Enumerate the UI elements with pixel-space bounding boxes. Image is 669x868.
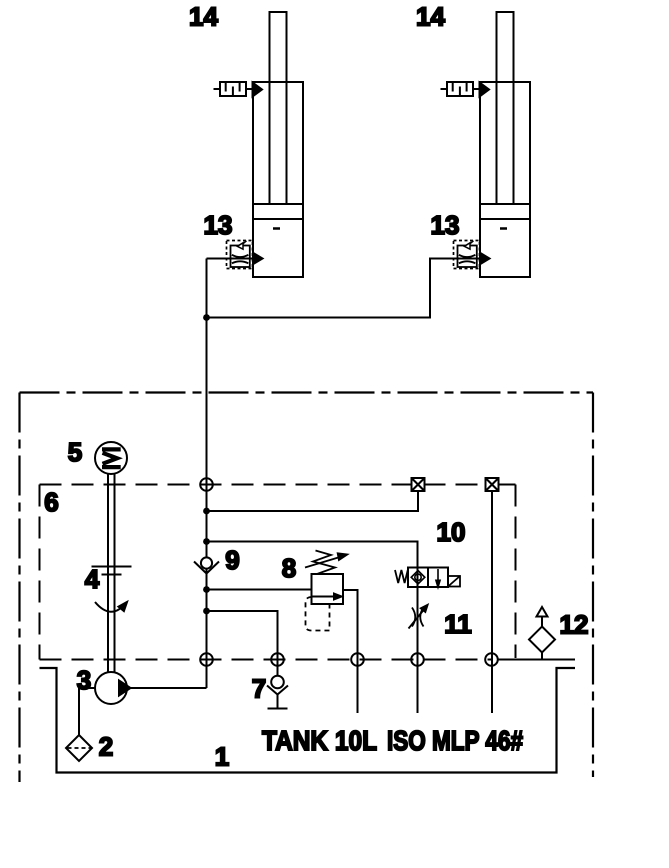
cylinder 14 right flange line: [480, 218, 530, 220]
cylinder 14 left rod: [270, 12, 287, 204]
throttle check valve 13 right: [454, 241, 490, 269]
svg-text:8: 8: [282, 553, 296, 583]
cylinder 14 left piston line: [253, 203, 303, 205]
breather on left cylinder: [214, 82, 263, 97]
pump pressure wire: [127, 687, 207, 689]
check valve 9: [194, 557, 219, 573]
junction node: [203, 608, 210, 615]
wire from left valve 13 to junction: [207, 258, 254, 260]
relief valve outlet wire: [343, 590, 358, 660]
wire plug to manifold right edge: [499, 484, 516, 486]
port circle relief return: [351, 653, 364, 666]
tank 1 outline: [40, 668, 576, 773]
svg-text:9: 9: [225, 545, 239, 575]
cylinder 14 right piston line: [480, 203, 530, 205]
cylinder 14 left barrel: [253, 82, 303, 277]
solid tank top line right: [498, 659, 576, 661]
svg-text:5: 5: [68, 437, 82, 467]
manifold block 6 dashed box left edge: [39, 485, 41, 660]
svg-text:12: 12: [560, 610, 589, 640]
wire to solenoid valve 10: [207, 542, 418, 568]
cylinder 14 right port tick: [500, 227, 507, 230]
junction node: [203, 586, 210, 593]
svg-text:14: 14: [416, 2, 445, 32]
svg-text:TANK 10L: TANK 10L: [262, 725, 377, 756]
rotation arrow: [95, 602, 126, 612]
svg-text:13: 13: [204, 210, 233, 240]
port circle valve 10 line: [411, 653, 424, 666]
relief valve 8: [305, 551, 347, 631]
solenoid valve 10 vertical wire: [417, 568, 419, 714]
svg-text:ISO MLP 46#: ISO MLP 46#: [387, 725, 523, 756]
manifold block 6 dashed box top edge: [40, 484, 486, 486]
suction filter 2: [66, 735, 92, 761]
svg-text:7: 7: [252, 674, 266, 704]
plug port X right: [486, 478, 499, 491]
svg-text:11: 11: [444, 609, 472, 639]
wire to check valve 7: [207, 611, 278, 660]
cylinder 14 left flange line: [253, 218, 303, 220]
throttle 11: [409, 605, 428, 629]
manifold block 6 dashed box bottom edge: [40, 659, 492, 661]
solenoid valve 10: [395, 568, 460, 588]
wire below port into tank: [357, 660, 359, 714]
svg-text:14: 14: [189, 2, 218, 32]
wire to relief valve 8: [207, 589, 312, 591]
coupling 4: [92, 566, 132, 568]
manifold block 6 dashed box right edge: [515, 485, 517, 659]
wire junction to right valve 13: [207, 259, 454, 318]
check valve 7: [267, 660, 288, 709]
wire to plug port left: [207, 492, 419, 512]
junction node: [203, 314, 210, 321]
cylinder 14 right barrel: [480, 82, 530, 277]
cylinder 14 left port tick: [273, 227, 280, 230]
svg-text:13: 13: [431, 210, 460, 240]
throttle check valve 13 left: [227, 241, 263, 269]
port circle right: [485, 653, 498, 666]
pump suction wire: [79, 688, 95, 735]
svg-text:10: 10: [437, 517, 466, 547]
pump 3: [95, 672, 131, 704]
cylinder 14 right rod: [497, 12, 514, 204]
svg-text:2: 2: [99, 732, 113, 762]
breather on right cylinder: [441, 82, 490, 97]
power unit enclosure dash-dot border left edge: [18, 393, 20, 783]
port circle pump line: [200, 653, 213, 666]
power unit enclosure dash-dot border top edge: [20, 391, 594, 393]
junction node: [203, 508, 210, 515]
svg-text:1: 1: [215, 742, 229, 772]
svg-text:6: 6: [44, 487, 58, 517]
port circle check 7: [271, 653, 284, 666]
wire plug down to tank: [491, 491, 493, 713]
main pressure wire down to power unit: [206, 318, 208, 689]
svg-text:4: 4: [85, 564, 100, 594]
motor shaft: [107, 474, 109, 673]
air breather 12: [529, 607, 555, 660]
plug port X left: [412, 478, 425, 491]
port circle top: [200, 478, 213, 491]
junction node: [203, 538, 210, 545]
power unit enclosure dash-dot border right edge: [592, 393, 594, 778]
motor 5: [95, 442, 127, 474]
